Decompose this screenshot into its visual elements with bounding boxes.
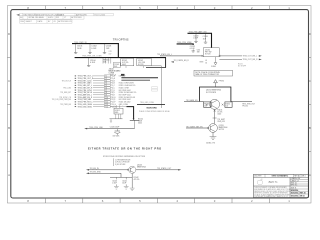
svg-text:TRI_OUT_R: TRI_OUT_R	[62, 80, 72, 82]
svg-text:MFG: KC: MFG: KC	[291, 185, 298, 187]
svg-text:4B: 4B	[205, 60, 207, 62]
title block right bottom rows	[290, 187, 309, 197]
resistor pack RP1101	[103, 58, 111, 64]
wire net cap branch vertical	[134, 120, 136, 128]
net label second input	[174, 59, 190, 62]
connector pin row 13	[60, 103, 165, 106]
transistor Q1131 label	[219, 125, 228, 131]
inner border frame	[11, 10, 309, 198]
pin labels right of U1130 input	[205, 60, 207, 64]
svg-text:PP3V0: PP3V0	[219, 81, 224, 83]
svg-text:SITE SCHEMATIC: SITE SCHEMATIC	[272, 175, 289, 178]
junction X emitter	[214, 110, 216, 112]
svg-text:9/02/2014: 9/02/2014	[291, 195, 299, 198]
zone tick marks right edge	[309, 58, 312, 152]
title block disclaimer text	[254, 186, 291, 198]
svg-text:R1115 33 OHM 5% NS: R1115 33 OHM 5% NS	[119, 97, 135, 99]
transistor Q1140 label	[137, 164, 146, 168]
svg-text:B: B	[309, 126, 311, 130]
svg-text:6/4/14: 6/4/14	[48, 17, 53, 19]
svg-text:CHECK: JT: CHECK: JT	[291, 180, 299, 182]
wire net emitter rail	[110, 176, 132, 178]
connector pin row 7	[75, 89, 158, 92]
svg-text:R1112 0 OHM 0402 5%: R1112 0 OHM 0402 5%	[119, 85, 136, 87]
capacitor C1132	[190, 46, 196, 52]
svg-text:8/29/2014: 8/29/2014	[291, 192, 299, 195]
wire collector loop	[200, 87, 231, 102]
revision table arrow marker	[16, 14, 19, 16]
wire net U1130 out1	[219, 55, 242, 57]
title block header row	[254, 174, 309, 177]
note box	[194, 70, 233, 76]
zone tick marks bottom edge	[46, 198, 270, 203]
capacitor C1105	[113, 63, 120, 68]
svg-text:0.1UF: 0.1UF	[112, 183, 117, 185]
ground symbol Q1131	[210, 137, 217, 140]
sheet title TRI OPTNS	[113, 37, 129, 41]
svg-text:TRIG_GND_CONN: TRIG_GND_CONN	[140, 102, 155, 104]
connector pin row 1	[75, 74, 126, 78]
connector header pin row0	[110, 73, 125, 76]
svg-text:8/28/2014: 8/28/2014	[291, 189, 299, 192]
svg-text:Apple Inc.: Apple Inc.	[269, 181, 279, 184]
svg-text:T14: T14	[105, 106, 108, 108]
connector pin row 14	[75, 106, 117, 109]
wire net base Q1130	[184, 101, 204, 103]
svg-text:DGND: DGND	[211, 66, 217, 68]
svg-text:APPROVED BY: APPROVED BY	[58, 20, 72, 23]
svg-text:APPROVED: APPROVED	[71, 16, 82, 19]
svg-text:SNS_0R5: SNS_0R5	[217, 121, 225, 123]
svg-text:TRIG_OUT_EN_L: TRIG_OUT_EN_L	[243, 56, 258, 58]
svg-text:R1131: R1131	[238, 64, 243, 66]
net label input 2	[90, 172, 102, 174]
svg-text:EITHER TRISTATE OR ON THE RIGH: EITHER TRISTATE OR ON THE RIGHT PRO	[88, 146, 162, 150]
svg-text:R1113 0 OHM: R1113 0 OHM	[119, 87, 130, 89]
svg-text:STUFF R1140 OR R1141 DEPEN: STUFF R1140 OR R1141 DEPENDING ON OPTION	[103, 156, 146, 158]
svg-text:TRI_STATE_EN_L: TRI_STATE_EN_L	[157, 53, 172, 56]
capacitor C1130	[193, 34, 199, 43]
pin X left Q1130	[206, 104, 208, 106]
svg-text:PLACE CONN WITHIN 10MM OF EDGE: PLACE CONN WITHIN 10MM OF EDGE	[139, 110, 171, 113]
svg-text:SHEET: SHEET	[26, 21, 33, 23]
title block maker name	[269, 181, 279, 184]
net label right below wire	[242, 104, 255, 108]
connector pin row 8	[60, 91, 137, 94]
wire net second input	[171, 61, 204, 63]
connector body outline	[140, 66, 161, 108]
svg-text:R1116 10K 0402: R1116 10K 0402	[119, 102, 131, 104]
revision table row 1	[20, 13, 114, 16]
wire net TRIG_C thick bus middle	[75, 57, 166, 59]
svg-text:TP1130: TP1130	[242, 106, 248, 108]
wire net emitter down	[214, 109, 216, 123]
svg-text:P11_F: P11_F	[111, 99, 116, 101]
svg-text:TRIG_OUT_EN_R: TRIG_OUT_EN_R	[243, 59, 259, 61]
zone letters left	[8, 32, 10, 177]
svg-text:MMBT3904: MMBT3904	[137, 166, 146, 168]
connector bottom note line	[139, 110, 171, 113]
transistor Q1131 circle	[209, 124, 218, 133]
wire net input 2	[89, 173, 121, 177]
net label TRIG_C	[82, 56, 102, 58]
connector header J1100	[109, 68, 122, 74]
wire net esd ground bar	[110, 119, 123, 122]
pin X left Q1131	[207, 127, 209, 129]
wire net W1	[160, 55, 203, 57]
net label TRIG_F	[177, 42, 193, 44]
note list bracket	[113, 158, 131, 166]
svg-text:INITIAL RELEASE: INITIAL RELEASE	[28, 16, 44, 19]
svg-text:TRIG_PWR_3V: TRIG_PWR_3V	[74, 42, 87, 44]
net label TRIG_A	[74, 42, 87, 44]
outer border frame	[7, 6, 311, 203]
wire net TRIG_A thick bus top	[72, 43, 119, 45]
wire net cap branch horizontal	[87, 128, 135, 130]
apple logo	[257, 179, 263, 185]
wire net emitter Q1131	[212, 132, 214, 136]
wire net GND corner row14	[110, 107, 133, 120]
svg-text:AGND_TRI: AGND_TRI	[206, 141, 215, 144]
svg-text:ECO 12345: ECO 12345	[95, 14, 106, 16]
transistor Q1130 circle	[210, 99, 220, 109]
svg-text:TRIG_GND_SNS1: TRIG_GND_SNS1	[78, 106, 93, 108]
svg-text:P3_B: P3_B	[111, 80, 115, 82]
svg-text:R1134: R1134	[226, 104, 231, 106]
ic U1130 designator	[197, 50, 200, 54]
connector pin row 6	[63, 87, 157, 90]
wire net emitter Q1140	[131, 174, 133, 189]
wire net TRIG_D thick	[188, 32, 213, 34]
svg-text:RW: RW	[56, 17, 59, 19]
net label base Q1131	[186, 125, 203, 128]
svg-text:DATE: DATE	[38, 20, 44, 23]
net label out2 with arrow	[243, 59, 262, 62]
wire net U1130 out2	[219, 58, 242, 60]
svg-text:MAIN BRD: MAIN BRD	[147, 107, 158, 110]
junction X row13	[133, 119, 135, 121]
ground symbol Q1140 emitter	[130, 188, 135, 191]
svg-text:P4_B: P4_B	[111, 83, 115, 85]
svg-text:3) NO STUFF: 3) NO STUFF	[115, 164, 125, 166]
zone numbers top	[27, 6, 290, 10]
svg-text:NO STUFF 0402: NO STUFF 0402	[119, 90, 131, 92]
zone tick marks top edge	[46, 6, 270, 10]
capacitor C1120 label	[110, 127, 119, 129]
svg-text:P9_E: P9_E	[111, 95, 115, 97]
wire net vertical B	[117, 43, 119, 57]
svg-text:0.1UF: 0.1UF	[90, 62, 96, 64]
svg-text:10UF: 10UF	[122, 183, 126, 185]
svg-text:SH 04: SH 04	[300, 195, 305, 198]
svg-text:P10_E: P10_E	[111, 97, 116, 99]
svg-text:P12_F: P12_F	[111, 102, 116, 104]
ic box U1102	[137, 58, 152, 68]
resistor R1120 label	[138, 118, 143, 124]
transistor Q1140 circle	[129, 166, 136, 173]
connector pin row 4	[75, 82, 134, 85]
ic U1101 esd array	[114, 105, 123, 119]
pin X right Q1130	[222, 104, 224, 106]
svg-text:C: C	[309, 79, 311, 83]
note text below out2	[238, 64, 246, 68]
connector pin row 11	[52, 98, 131, 101]
svg-text:0402: 0402	[217, 114, 221, 116]
revision table row 2	[20, 16, 84, 19]
svg-text:470 5%: 470 5%	[134, 179, 140, 181]
connector pin row 2	[75, 77, 158, 80]
svg-text:REV A1: REV A1	[300, 192, 306, 195]
svg-text:0.1UF: 0.1UF	[91, 48, 97, 50]
svg-text:NO STUFF 0402: NO STUFF 0402	[119, 99, 131, 101]
banner note EITHER TRISTATE	[88, 146, 162, 150]
wire net TRIG_F thick	[177, 44, 194, 45]
svg-text:0402: 0402	[122, 64, 126, 66]
net label output	[157, 167, 172, 170]
connector pin row 9	[75, 94, 131, 97]
net label node N1	[217, 119, 225, 123]
svg-text:TRIG_PRE_GND: TRIG_PRE_GND	[89, 127, 104, 129]
connector pin row 3	[62, 80, 150, 83]
zone numbers bottom	[27, 199, 290, 203]
svg-text:NO STUFF 0402: NO STUFF 0402	[119, 95, 131, 97]
svg-text:A: A	[309, 173, 311, 177]
zone letters right	[309, 32, 311, 177]
svg-text:NO STUFF: NO STUFF	[238, 65, 246, 67]
svg-text:SH 4: SH 4	[302, 176, 306, 178]
net label AGND	[206, 141, 215, 144]
capacitor C1120 value	[113, 135, 120, 137]
resistor box R1102	[121, 58, 134, 68]
wire net output Q1140	[136, 169, 179, 171]
capacitor C1102	[88, 44, 97, 54]
svg-text:0402: 0402	[138, 122, 142, 124]
svg-text:D: D	[8, 32, 10, 36]
title block outline	[254, 174, 309, 197]
wire net base Q1131	[186, 127, 209, 129]
svg-text:REPRODUCED OR DISCLOSED WITHOU: REPRODUCED OR DISCLOSED WITHOUT PRIOR	[254, 191, 291, 193]
svg-text:ENG: DL: ENG: DL	[291, 183, 297, 185]
connector pin row 10	[59, 96, 135, 99]
capacitor C1101	[74, 44, 82, 54]
off-page arrow output	[178, 169, 181, 171]
net label W1	[157, 53, 172, 56]
wire net C lower stub	[146, 67, 166, 69]
connector bottom label MAIN	[147, 107, 158, 110]
svg-text:16V 20%: 16V 20%	[113, 135, 120, 137]
ground flag below U1130	[211, 57, 217, 68]
capacitor C1141	[122, 177, 128, 189]
svg-text:TRI_CLK0: TRI_CLK0	[63, 87, 71, 89]
resistor R1135 label	[217, 109, 222, 115]
connector pin row 5	[75, 84, 136, 87]
svg-text:100: 100	[226, 105, 229, 107]
svg-text:B: B	[8, 126, 10, 130]
connector pin row 12	[75, 101, 131, 104]
revision table row 3	[20, 20, 73, 23]
junction tick node	[213, 117, 217, 119]
ic U1130 load switch	[203, 48, 219, 57]
svg-text:TRI_STATE_EN_R: TRI_STATE_EN_R	[174, 59, 190, 62]
pin X mark right U1130	[219, 55, 221, 57]
resistor R1133 base left	[204, 102, 211, 108]
svg-text:TRI OPTNS: TRI OPTNS	[113, 37, 129, 41]
capacitor C1103	[103, 44, 113, 55]
capacitor C1120 symbol	[114, 129, 120, 136]
power bar VCC_T	[130, 119, 139, 121]
svg-text:SOT23: SOT23	[219, 129, 224, 131]
svg-text:P13_G: P13_G	[111, 104, 117, 106]
title block right small rows	[290, 177, 309, 187]
svg-text:SOT23 NPN: SOT23 NPN	[206, 92, 217, 94]
svg-text:R1114 33 OHM 0402 5%: R1114 33 OHM 0402 5%	[119, 92, 137, 94]
transistor Q1130 label	[206, 90, 221, 94]
capacitor C1104	[87, 58, 96, 67]
svg-text:SW: SW	[197, 52, 200, 54]
svg-text:TRI_1V8_PRE_PWR_EN: TRI_1V8_PRE_PWR_EN	[52, 99, 72, 101]
pin X mark left U1130	[202, 55, 204, 57]
svg-text:TRI_STATE_OUT: TRI_STATE_OUT	[157, 167, 172, 170]
wire net right Q1130	[231, 101, 252, 103]
svg-text:A: A	[8, 173, 10, 177]
off-page arrow left TRIG_GND	[84, 128, 87, 130]
svg-text:5MM OF TRIG CONNECTOR: 5MM OF TRIG CONNECTOR	[195, 74, 219, 76]
note text row	[103, 156, 146, 158]
svg-text:GND_CONN: GND_CONN	[119, 104, 129, 106]
svg-text:TRI_PWR_EN: TRI_PWR_EN	[60, 104, 72, 106]
svg-text:C1120 10UF: C1120 10UF	[110, 127, 119, 129]
svg-text:SOT23: SOT23	[205, 54, 210, 56]
pin X left Q1140	[127, 169, 129, 171]
resistor R1134 right	[225, 102, 232, 108]
net label TRIG_D	[189, 31, 207, 34]
svg-text:C: C	[8, 79, 10, 83]
off-page arrow input 1	[86, 169, 89, 171]
wire net input 1	[89, 169, 129, 171]
svg-text:TRI_SNS_INT: TRI_SNS_INT	[60, 92, 71, 94]
off-page arrow input 2	[86, 173, 89, 175]
svg-text:R1111 0 OHM 1/16W: R1111 0 OHM 1/16W	[119, 83, 134, 85]
power flag P2	[214, 80, 224, 87]
net label GND segment	[140, 102, 155, 104]
capacitor C1140	[112, 177, 119, 189]
net label input 1	[90, 168, 100, 170]
net label TRIG_GND	[89, 127, 104, 129]
svg-text:A1: A1	[20, 16, 22, 19]
svg-text:REV A1: REV A1	[294, 175, 300, 178]
resistor R1142 label	[134, 177, 140, 181]
net label out1 with arrow	[243, 55, 262, 58]
wire net E vertical thick	[211, 33, 213, 47]
svg-text:D: D	[309, 32, 311, 36]
zone tick marks left edge	[7, 58, 10, 152]
capacitor C1131	[203, 34, 208, 43]
title block divider row2	[254, 177, 309, 197]
svg-text:051-9999: 051-9999	[254, 176, 261, 178]
wire net C corner down	[165, 58, 167, 68]
net label base wire	[186, 99, 198, 102]
